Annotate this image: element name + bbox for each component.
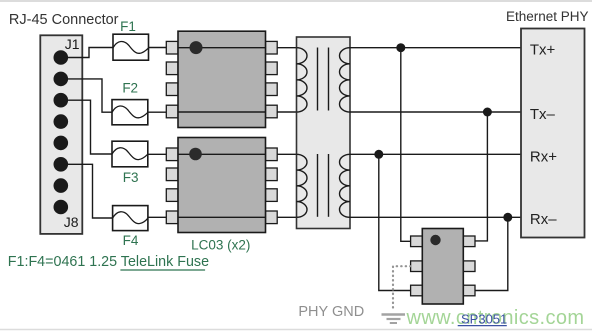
wire Tx- to U3 pin8	[475, 112, 487, 241]
svg-text:F1: F1	[120, 19, 136, 34]
junction Tx-	[483, 108, 492, 117]
connector pin 6	[54, 157, 69, 172]
wire U2 pin5 to T1	[277, 216, 296, 218]
dotted wire U3 pin2 to ground	[393, 266, 411, 311]
fuse F4	[113, 206, 148, 231]
wire F2 to U1 pin4	[148, 111, 167, 113]
wire Rx+ to U3 pin3	[379, 154, 411, 290]
svg-text:LC03 (x2): LC03 (x2)	[191, 237, 250, 252]
wire Rx- to U3 pin6	[475, 217, 508, 290]
wire F4 to U2 pin4	[148, 216, 166, 218]
connector pin 8	[54, 200, 69, 215]
ground PHY GND	[382, 315, 406, 324]
TVS diode array U1 LC03	[166, 31, 277, 127]
wire pin2 to F2	[61, 79, 112, 112]
wire Tx+ to U3 pin1	[401, 48, 411, 242]
connector pin 3	[54, 93, 69, 108]
svg-text:Tx+: Tx+	[530, 42, 556, 59]
fuse F2	[112, 100, 148, 125]
wire pin1 to F1	[61, 48, 113, 58]
wire U1 pin8 to T1	[277, 47, 296, 49]
svg-text:F4: F4	[123, 233, 139, 248]
Ethernet PHY block	[521, 29, 585, 238]
wire pin6 to F4	[61, 164, 113, 218]
connector pin 2	[54, 72, 69, 87]
svg-text:RJ-45 Connector: RJ-45 Connector	[9, 12, 119, 28]
junction Tx+	[396, 43, 405, 52]
TVS diode array U2 LC03	[166, 138, 277, 233]
connector pin 7	[54, 178, 69, 193]
value label SP3051	[458, 312, 508, 327]
svg-text:F2: F2	[122, 81, 138, 96]
transformer T1	[297, 37, 351, 229]
RJ-45 connector body	[40, 35, 82, 234]
svg-text:F1:F4=0461 1.25 TeleLink Fuse: F1:F4=0461 1.25 TeleLink Fuse	[8, 254, 209, 270]
top page rule	[0, 0, 592, 2]
wire U2 pin8 to T1	[277, 153, 296, 155]
svg-text:Ethernet PHY: Ethernet PHY	[506, 9, 589, 24]
wire F3 to U2 pin1	[148, 153, 167, 155]
svg-text:SP3051: SP3051	[461, 312, 507, 327]
svg-text:J8: J8	[64, 214, 79, 230]
junction Rx-	[503, 213, 512, 222]
svg-text:Tx–: Tx–	[530, 106, 556, 123]
fuse F3	[112, 141, 148, 167]
svg-text:PHY GND: PHY GND	[298, 304, 364, 320]
svg-text:J1: J1	[65, 36, 80, 52]
wire net Tx-	[350, 111, 521, 113]
wire U1 pin5 to T1	[277, 111, 296, 113]
svg-text:Rx–: Rx–	[530, 211, 557, 228]
wire net Tx+	[350, 47, 521, 49]
wire pin3 to F3	[61, 100, 112, 154]
svg-text:Rx+: Rx+	[530, 148, 557, 165]
connector pin 1	[54, 50, 69, 65]
wire net Rx-	[350, 216, 521, 218]
connector pin 4	[54, 114, 69, 129]
connector pin 5	[54, 136, 69, 151]
svg-text:F3: F3	[123, 170, 139, 185]
bottom page rule	[0, 329, 592, 331]
protection IC U3 SP3051	[411, 229, 475, 305]
wire F1 to U1 pin1	[149, 47, 167, 49]
junction Rx+	[374, 150, 383, 159]
wire net Rx+	[350, 153, 521, 155]
caption underline	[120, 269, 205, 271]
fuse F1	[113, 34, 149, 60]
